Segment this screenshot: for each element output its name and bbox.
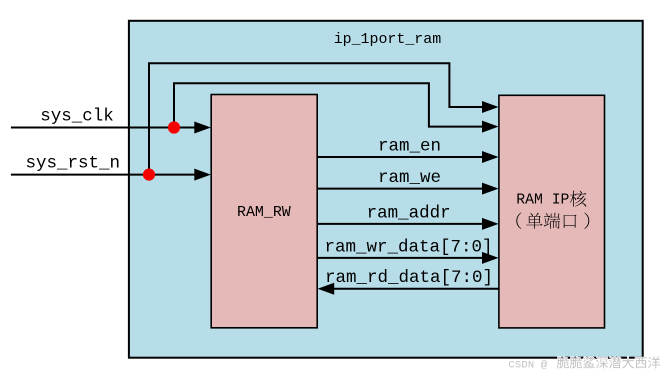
svg-text:ram_rd_data[7:0]: ram_rd_data[7:0] bbox=[325, 268, 493, 288]
label RAM IP core line2: (dan duan kou) bbox=[516, 213, 521, 229]
wire ram_we bbox=[317, 188, 484, 190]
wire clk route to RAM IP bbox=[174, 83, 484, 127]
svg-text:ip_1port_ram: ip_1port_ram bbox=[334, 32, 442, 48]
wire sys_rst_n input bbox=[11, 174, 196, 176]
svg-text:sys_clk: sys_clk bbox=[40, 107, 114, 127]
svg-text:CSDN @: CSDN @ bbox=[508, 359, 548, 371]
wire ram_wr_data[7:0] bbox=[317, 257, 484, 259]
junction sys_clk bbox=[168, 121, 180, 133]
wire rst route to RAM IP bbox=[149, 63, 484, 174]
svg-text:ram_wr_data[7:0]: ram_wr_data[7:0] bbox=[325, 237, 493, 257]
wire ram_en bbox=[317, 156, 484, 158]
label RAM IP core line1: hanzi he bbox=[570, 191, 586, 207]
wire sys_clk input bbox=[11, 127, 196, 129]
svg-text:ram_en: ram_en bbox=[378, 137, 441, 157]
junction sys_rst_n bbox=[143, 169, 155, 181]
svg-text:RAM IP: RAM IP bbox=[516, 192, 569, 208]
block RAM_RW bbox=[211, 95, 317, 328]
watermark hanzi bbox=[557, 356, 569, 368]
svg-text:sys_rst_n: sys_rst_n bbox=[26, 154, 121, 174]
wire ram_rd_data[7:0] bbox=[332, 288, 499, 290]
svg-text:RAM_RW: RAM_RW bbox=[237, 205, 291, 221]
svg-text:ram_we: ram_we bbox=[378, 168, 441, 188]
wire ram_addr bbox=[317, 223, 484, 225]
module box ip_1port_ram bbox=[129, 21, 643, 358]
svg-text:ram_addr: ram_addr bbox=[367, 203, 451, 223]
block RAM IP core bbox=[499, 95, 605, 328]
